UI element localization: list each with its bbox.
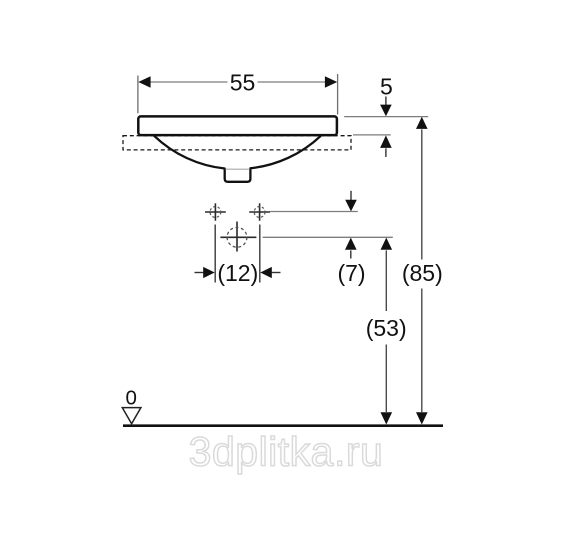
dimension (53): lower shaft and bottom down arrow: [381, 345, 393, 425]
svg-text:(7): (7): [337, 260, 365, 286]
faucet hole crosshair right: [249, 203, 270, 220]
dimension 55: left extension line: [137, 76, 139, 114]
dimension 55: label: [230, 69, 256, 95]
watermark 3dplitka.ru: [189, 429, 384, 475]
dimension 55: dimension line right segment: [258, 81, 331, 83]
dimension (12): label: [217, 260, 258, 286]
dimension (7): down arrow: [345, 191, 357, 212]
dimension (12): right extension line: [259, 225, 261, 283]
sink rim (side view): [138, 116, 337, 135]
dimension 5: lower reference line (counter level): [353, 134, 391, 136]
countertop cutout (dashed rectangle): [123, 136, 351, 150]
svg-text:0: 0: [125, 386, 136, 409]
dimension (85): label: [402, 260, 443, 286]
svg-text:(12): (12): [217, 260, 258, 286]
svg-text:55: 55: [230, 69, 256, 95]
svg-text:5: 5: [380, 73, 393, 99]
dimension (7): up arrow: [345, 238, 357, 259]
svg-text:(85): (85): [402, 260, 443, 286]
dimension 55: dimension line left segment: [145, 81, 228, 83]
dimension (12): left extension line: [214, 225, 216, 283]
dimension (12): left arrow (pointing right): [195, 267, 215, 278]
dimension 5: down arrow: [380, 97, 392, 117]
floor datum triangle: [122, 408, 141, 424]
dimension (7): upper reference line (faucet hole level): [270, 211, 358, 213]
svg-text:(53): (53): [366, 315, 407, 341]
dimension (85): lower shaft and bottom down arrow: [416, 289, 428, 425]
basin bowl with drain outlet: [154, 136, 321, 182]
dimension (7): label: [337, 260, 365, 286]
dimension 55: right arrowhead: [325, 76, 337, 87]
floor datum label 0: [125, 386, 136, 409]
dimension 5: up arrow: [380, 135, 392, 157]
dimension (12): right arrow (pointing left): [260, 267, 280, 278]
dimension 5: label: [380, 73, 393, 99]
dimension 55: right extension line: [337, 74, 339, 115]
drain axis crosshair (large): [220, 222, 256, 252]
dimension 55: left arrowhead: [138, 76, 150, 87]
drain top edge (faint): [226, 168, 250, 170]
dimension (53): label: [366, 315, 407, 341]
dimension (7): lower reference line (drain axis level): [263, 236, 393, 238]
dimension (85): top up arrow: [416, 117, 428, 260]
dimension (53): top up arrow: [381, 238, 393, 311]
floor line: [123, 424, 443, 427]
svg-text:3dplitka.ru: 3dplitka.ru: [189, 429, 384, 475]
faucet hole crosshair left: [205, 203, 226, 220]
dimension 5: upper reference line (rim top level): [344, 116, 428, 118]
